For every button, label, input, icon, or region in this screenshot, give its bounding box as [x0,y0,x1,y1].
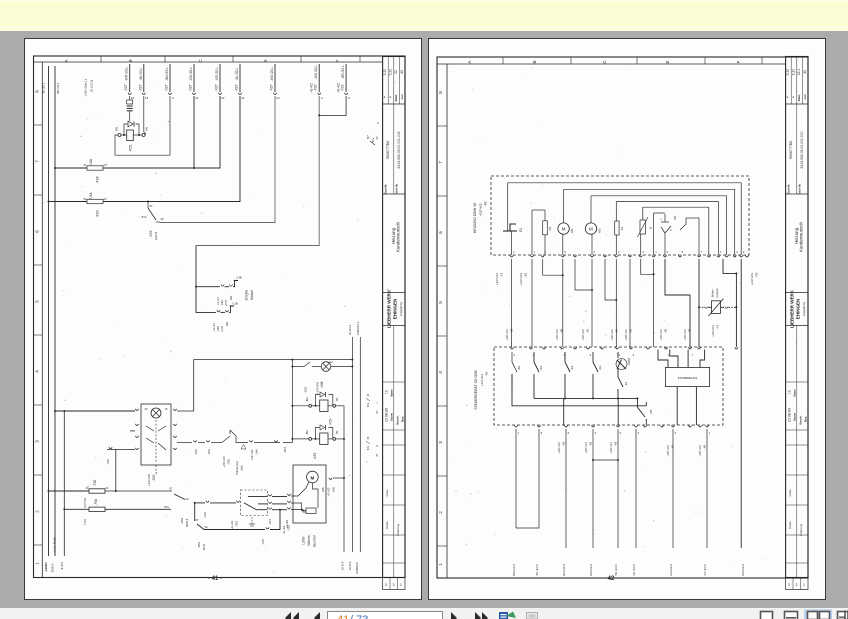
svg-text:2: 2 [393,583,395,587]
rail to bottom left B [51,168,57,572]
toolbar navigation buttons [0,608,848,619]
svg-text:F: F [736,60,741,63]
svg-text:43: 43 [400,70,404,74]
svg-text:1: 1 [803,583,805,587]
svg-text:(s.Vor Blatt): (s.Vor Blatt) [53,538,57,553]
svg-text:+237+K3: +237+K3 [584,442,588,454]
glow plug E1 [503,224,523,255]
svg-text:5: 5 [35,300,40,303]
button facing pages view (selected) [804,610,832,619]
svg-text:30: 30 [205,525,208,529]
page number 41 [208,576,222,582]
harness heater to control unit [512,259,742,548]
svg-text:3: 3 [743,250,745,254]
svg-text:-K51: -K51 [197,542,201,549]
svg-text:2: 2 [642,250,644,254]
bottom harness right page [516,429,707,548]
svg-text:+237+K3: +237+K3 [610,329,614,341]
svg-text:2: 2 [438,511,443,514]
page number 42 [604,576,618,582]
svg-text:+237+K3: +237+K3 [555,329,559,341]
svg-text:-K5: -K5 [649,409,653,414]
button continuous view [785,612,798,619]
switch K51 contact lower [195,503,280,550]
supply rail +15V (Bat.) [42,66,49,202]
svg-text:30: 30 [367,393,370,396]
svg-text:8: 8 [541,431,543,435]
labels below heater box [495,272,759,285]
svg-text:Bea.: Bea. [401,416,405,423]
svg-text:6: 6 [438,231,443,234]
svg-text:2: 2 [513,250,515,254]
svg-text:Änderung: Änderung [799,523,803,536]
svg-text:1: 1 [35,562,40,565]
svg-text:4: 4 [172,96,174,100]
svg-text:JA /0.8: JA /0.8 [348,561,352,570]
svg-text:2: 2 [35,510,40,513]
control unit internal bus [512,374,646,425]
fuse F20 7,5A [49,480,173,509]
svg-text:Lüfter-: Lüfter- [302,535,306,544]
svg-text:-X8: -X8 [562,441,566,446]
wire to switch block S03 [195,501,236,518]
svg-text:23.08.89: 23.08.89 [788,408,792,422]
svg-text:-X8: -X8 [664,328,668,333]
svg-text:Blatt: Blatt [394,95,398,102]
svg-text:30: 30 [375,136,379,139]
fuse F2 [615,202,624,255]
svg-text:1: 1 [518,431,520,435]
svg-text:B: B [532,60,537,63]
svg-text:87: 87 [170,487,173,491]
motor M1 [558,189,574,255]
svg-text:3: 3 [35,440,40,443]
svg-text:-X14: -X14 [268,519,272,525]
svg-text:-K52: -K52 [313,452,317,459]
svg-text:87a: 87a [367,402,370,407]
svg-text:+E+K3: +E+K3 [230,520,234,529]
zone numbers left band right page [437,91,447,566]
svg-text:86+: 86+ [305,396,309,401]
svg-text:-F2: -F2 [620,226,624,231]
svg-text:-W1: -W1 [229,295,233,300]
svg-text:-X8: -X8 [671,444,675,449]
zone letters A-F top band right page [467,57,762,64]
page number field 41/73 [328,612,443,619]
svg-text:-R1: -R1 [548,226,552,231]
svg-text:2: 2 [796,583,798,587]
button keyboard icon [527,613,538,619]
svg-text:+: + [792,96,796,98]
svg-text:STEUERGERÄT SG OSB: STEUERGERÄT SG OSB [474,370,478,410]
svg-text:-WS /22.L: -WS /22.L [270,67,274,81]
svg-text:+237+K3: +237+K3 [495,273,499,286]
svg-text:EHINGEN: EHINGEN [796,299,801,320]
svg-text:Masse: Masse [250,290,254,300]
svg-text:-M2: -M2 [598,228,602,233]
svg-text:Boiler-: Boiler- [711,289,715,298]
svg-text:JL/0.8: JL/0.8 [44,564,48,572]
flame sensor B1 [660,214,677,255]
zone letters A-F top band [64,56,360,62]
svg-text:X1: X1 [83,197,87,201]
svg-text:von: von [803,94,807,100]
button facing continuous view [838,612,848,619]
svg-text:- 41 -: - 41 - [208,576,222,582]
svg-text:B2L/22.0: B2L/22.0 [562,564,566,576]
svg-text:1: 1 [655,250,657,254]
svg-text:22: 22 [394,70,398,74]
svg-text:ϑ: ϑ [649,227,653,229]
svg-text:5.20: 5.20 [389,69,393,76]
drawing frame (page 42) [437,57,808,578]
svg-text:22.1: 22.1 [797,69,801,76]
button previous page [314,612,320,619]
svg-text:E2: E2 [329,360,333,364]
wire lamp feed [55,410,135,412]
rail to bottom left C [53,410,66,570]
stub S02 row 2 [130,430,135,432]
svg-text:-X27: -X27 [270,84,274,91]
svg-text:+15V (Bat.1): +15V (Bat.1) [84,79,88,96]
svg-text:(X)7,5A: (X)7,5A [83,498,87,508]
svg-text:pumpe: pumpe [715,288,719,298]
svg-text:8: 8 [438,91,443,94]
svg-text:+E+K3: +E+K3 [282,525,286,534]
svg-text:+: + [383,96,387,98]
svg-text:+F+F1: +F+F1 [216,297,220,305]
svg-text:X2: X2 [106,487,110,490]
svg-text:Kundenwunsch: Kundenwunsch [798,221,803,252]
svg-text:-K4: -K4 [570,365,574,370]
svg-text:K5 /22.0: K5 /22.0 [632,564,636,575]
svg-text:Name: Name [793,389,797,397]
svg-text:LIEBHERR WERK: LIEBHERR WERK [790,289,795,328]
svg-text:E: E [665,60,670,63]
svg-text:K7 /22.0: K7 /22.0 [703,564,707,575]
svg-text:t.b: t.b [788,390,792,394]
svg-text:-W1: -W1 [225,321,229,326]
svg-text:-X82: -X82 [216,326,220,332]
svg-text:läuft: läuft [240,465,244,470]
svg-text:87: 87 [149,204,153,208]
svg-text:E1: E1 [519,228,523,232]
connector +E+K2 -X23 pin 5 [337,64,350,100]
note B7 terminal 30 [366,121,379,145]
svg-text:C: C [602,60,607,64]
svg-text:-S03: -S03 [235,521,239,527]
labels above control unit [505,328,692,340]
svg-text:9: 9 [633,353,635,357]
svg-text:9: 9 [667,250,669,254]
connector -X27 pin 14 [138,64,148,100]
svg-text:8: 8 [682,250,684,254]
svg-text:Datum: Datum [390,412,394,421]
svg-text:-A2: -A2 [484,201,488,206]
svg-text:6: 6 [35,230,40,233]
heater unit box HEIZUNG DBW 46 [473,176,749,255]
svg-text:-K53: -K53 [180,518,184,525]
svg-text:30: 30 [160,217,164,221]
svg-text:C: C [198,58,203,62]
svg-text:BN: BN [145,127,149,131]
connector -X27 pin 11 [235,64,245,100]
svg-text:+237+K3: +237+K3 [479,203,483,216]
svg-text:-BL /93.L: -BL /93.L [139,67,143,80]
svg-text:BN /23.1: BN /23.1 [56,82,60,94]
svg-text:+237+K3: +237+K3 [624,329,628,341]
title block left page [383,57,405,590]
rail K300/23.1 [356,321,360,552]
svg-text:-B1: -B1 [517,365,521,370]
svg-text:von: von [400,94,404,100]
wire stair step 3 [160,96,275,223]
svg-text:-R2: -R2 [755,272,759,277]
svg-text:-BN /93.L: -BN /93.L [165,67,169,81]
svg-text:Datum: Datum [385,521,389,529]
svg-text:+237+K3: +237+K3 [222,456,226,468]
svg-text:43: 43 [803,70,807,74]
svg-text:+237+K3: +237+K3 [480,374,484,387]
svg-text:-X45: -X45 [332,487,336,493]
svg-text:86+: 86+ [305,429,309,434]
relay K51 [115,121,149,151]
svg-text:-X15: -X15 [194,449,198,455]
svg-text:-K53: -K53 [149,230,153,237]
ground rail right cluster [343,406,345,552]
svg-text:tauscher: tauscher [313,534,317,547]
svg-text:-X8: -X8 [629,328,633,333]
svg-text:K8L/22.0: K8L/22.0 [741,564,745,576]
heater box internal harness [508,183,742,255]
svg-text:Bearb.: Bearb. [396,415,400,425]
svg-text:5: 5 [564,250,566,254]
svg-text:15: 15 [165,407,168,411]
svg-text:-X8: -X8 [703,444,707,449]
svg-text:+237+K3: +237+K3 [609,442,613,454]
svg-text:-K2: -K2 [624,381,628,386]
svg-text:9936777B0: 9936777B0 [789,141,793,159]
svg-text:11: 11 [241,96,244,100]
svg-text:Wärme-: Wärme- [307,534,311,545]
scan speckle noise left page [42,71,396,573]
svg-text:Rahme (zu): Rahme (zu) [235,461,239,475]
scanned schematic page 41 (left) [24,38,422,600]
bottom toolbar [0,608,848,619]
contact K4 in control unit [565,352,574,398]
svg-text:F: F [335,59,340,62]
svg-text:-X14: -X14 [207,449,211,455]
resistor R1 [543,210,552,255]
svg-text:Bearb.: Bearb. [799,415,803,425]
svg-text:-S15: -S15 [304,387,308,394]
supply rail 15 [55,66,60,168]
svg-text:BL /23.1: BL /23.1 [42,82,46,93]
svg-text:2: 2 [675,431,677,435]
svg-text:-H08: -H08 [320,381,324,388]
svg-text:b: b [670,228,672,232]
svg-text:ER/0.8: ER/0.8 [51,563,55,572]
svg-text:Name: Name [390,389,394,397]
svg-text:JA /0.8: JA /0.8 [341,561,345,570]
svg-text:7,5A: 7,5A [89,192,93,200]
svg-text:2: 2 [514,353,516,357]
svg-text:0.1B: 0.1B [232,302,238,306]
svg-text:-X2: -X2 [500,272,504,277]
svg-text:4: 4 [595,431,597,435]
button next page [451,612,457,619]
svg-text:-X27: -X27 [215,84,219,91]
svg-text:3: 3 [638,431,640,435]
svg-text:15 (23.1): 15 (23.1) [90,80,94,92]
svg-text:X1: X1 [83,163,87,167]
svg-text:+: + [389,96,393,98]
svg-text:Datum: Datum [793,412,797,421]
svg-text:87a: 87a [371,137,375,142]
svg-text:Copyright by: Copyright by [802,301,806,316]
svg-text:+E+K3: +E+K3 [327,487,331,496]
svg-text:87a: 87a [164,505,169,509]
svg-text:-X8: -X8 [510,328,514,333]
svg-text:-X04: -X04 [203,512,207,518]
svg-text:-GR /22.L: -GR /22.L [215,67,219,81]
svg-text:B3L/22.0: B3L/22.0 [589,564,593,576]
svg-text:t.b: t.b [385,390,389,394]
svg-text:15A: 15A [89,158,93,165]
svg-text:-B1: -B1 [524,272,528,277]
svg-text:2: 2 [321,96,323,100]
bus wire 2 [48,96,241,203]
svg-text:Start-Nr.: Start-Nr. [384,184,388,195]
svg-text:+237+K3: +237+K3 [581,329,585,341]
svg-text:23.08.89: 23.08.89 [385,408,389,422]
labels below control unit [557,441,707,456]
svg-text:-X8: -X8 [589,441,593,446]
lamp H08 [291,360,353,394]
svg-text:-K3: -K3 [539,365,543,370]
svg-text:7: 7 [701,250,703,254]
svg-text:+237+K3: +237+K3 [750,273,754,286]
svg-text:HL/23.1: HL/23.1 [348,324,352,335]
svg-text:-F20: -F20 [93,480,97,487]
svg-text:JL/0.8: JL/0.8 [60,562,64,570]
svg-text:2319-932.05.00.001-002: 2319-932.05.00.001-002 [397,131,401,168]
svg-text:30: 30 [86,487,89,490]
svg-text:Zeich-Nr.: Zeich-Nr. [395,183,399,194]
svg-text:5: 5 [438,301,443,304]
svg-text:-X27: -X27 [138,84,142,91]
svg-text:10: 10 [276,96,280,100]
svg-text:J: J [376,402,379,404]
svg-text:Änderung: Änderung [396,523,400,536]
button last page [475,612,488,619]
switch block S03 [230,490,267,529]
svg-text:BN: BN [115,127,119,131]
svg-text:-K2: -K2 [598,365,602,370]
connector +E+K2 -X23 pin 2 [310,64,323,100]
svg-text:/ 73: / 73 [350,614,368,619]
connector -X27 pin 15 [124,64,134,100]
svg-text:3: 3 [788,583,790,587]
svg-text:7: 7 [692,353,694,357]
control unit box STEUERGERAT SG OSB [474,347,723,425]
svg-text:X2: X2 [103,197,107,201]
svg-text:A: A [376,445,379,447]
svg-text:Start-Nr.: Start-Nr. [787,184,791,195]
svg-text:-B14: -B14 [283,447,287,453]
svg-text:-X6: -X6 [615,328,619,333]
svg-text:-F23: -F23 [96,210,100,217]
svg-text:13: 13 [195,96,199,100]
switch box S02 with lamp [135,404,176,486]
svg-text:-BR /22.L: -BR /22.L [341,65,345,79]
svg-text:-Y2: -Y2 [716,324,720,329]
svg-text:85-: 85- [335,397,339,401]
svg-text:-K51: -K51 [129,144,133,151]
svg-text:Datum: Datum [788,521,792,529]
svg-text:6: 6 [620,431,622,435]
relay contact notes [366,393,379,457]
temperature sensor [638,207,654,255]
svg-text:+237+K3: +237+K3 [683,329,687,341]
control unit top pin row [510,347,738,357]
svg-text:Zeich-Nr.: Zeich-Nr. [798,183,802,194]
svg-text:14: 14 [145,96,149,100]
svg-text:0.4B: 0.4B [236,276,242,280]
wires S03 to motor box [256,494,289,528]
svg-text:-X44: -X44 [255,449,259,455]
wire stair step 4 [196,96,346,246]
svg-text:5.20: 5.20 [383,69,387,76]
svg-text:-S19: -S19 [287,525,291,531]
contact K2 in control unit [593,352,602,398]
wire K51 loop to connector 4 [115,96,170,155]
svg-text:+F+F1: +F+F1 [212,323,216,331]
zone numbers 1-8 left band [34,90,43,565]
bottom right net labels [341,561,359,574]
control unit bottom pin row [514,425,710,435]
scan speckle noise right page [441,67,801,562]
svg-text:c: c [660,218,662,221]
svg-text:EHINGEN: EHINGEN [393,299,398,320]
svg-text:+F47: +F47 [220,325,224,332]
svg-text:P300/0.8: P300/0.8 [355,562,359,574]
scanned schematic page 42 (right) [428,38,826,600]
svg-text:B7: B7 [376,453,379,457]
title block right page [786,57,808,590]
svg-text:+237+K3: +237+K3 [250,449,254,460]
heater box pin row [510,250,749,257]
rail HL/23.1 [348,324,352,552]
svg-text:-X23: -X23 [341,84,345,91]
svg-text:-X8: -X8 [560,328,564,333]
svg-text:Bea.: Bea. [804,416,808,423]
svg-text:Name: Name [385,489,389,496]
svg-text:B7: B7 [366,135,370,139]
fuse F24 15A [83,158,107,183]
svg-text:RV/2.8: RV/2.8 [185,518,189,527]
svg-text:7: 7 [35,160,40,163]
net labels bottom left [44,564,48,572]
svg-text:3: 3 [385,583,387,587]
connector -X27 pin 13 [189,64,199,100]
fuse F23 7,5A [83,192,107,218]
svg-text:M: M [589,227,593,232]
svg-text:+237+K3: +237+K3 [557,442,561,454]
svg-text:8/2.8: 8/2.8 [202,543,206,550]
svg-text:B7: B7 [376,410,379,414]
svg-text:-X6: -X6 [586,328,590,333]
